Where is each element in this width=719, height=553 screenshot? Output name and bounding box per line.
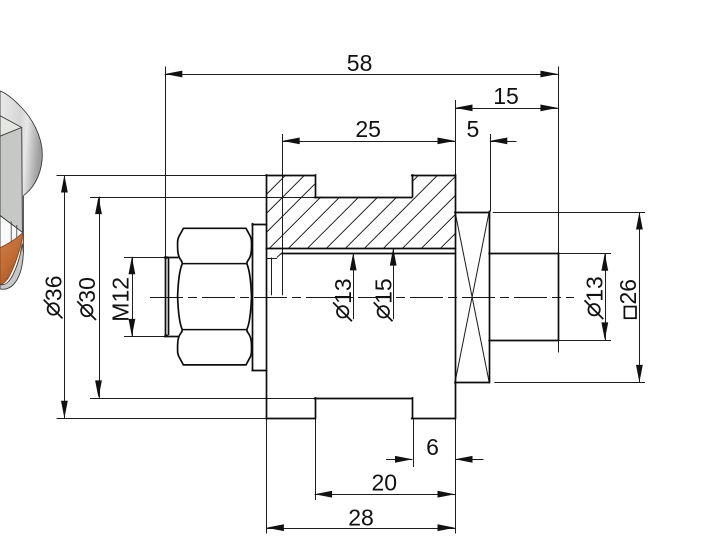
svg-text:5: 5 (467, 116, 480, 142)
svg-text:30: 30 (74, 277, 100, 303)
svg-text:25: 25 (355, 116, 381, 142)
svg-text:13: 13 (330, 278, 356, 304)
svg-text:13: 13 (581, 276, 607, 302)
svg-text:15: 15 (493, 83, 519, 109)
svg-text:20: 20 (372, 469, 398, 495)
svg-text:36: 36 (41, 276, 67, 302)
svg-text:15: 15 (371, 278, 397, 304)
svg-text:28: 28 (348, 504, 374, 530)
svg-text:26: 26 (615, 279, 641, 305)
svg-text:M12: M12 (107, 277, 133, 322)
svg-text:6: 6 (426, 434, 439, 460)
svg-text:58: 58 (347, 50, 373, 76)
